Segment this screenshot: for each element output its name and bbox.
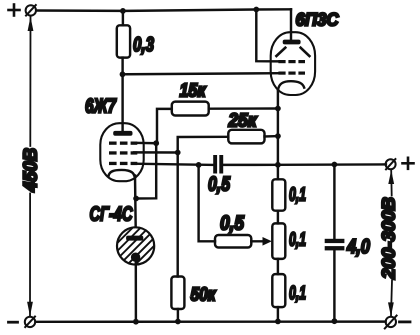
wire control grid 6Zh7 to C1 bbox=[134, 164, 213, 165]
node suppressor 6Zh7 bbox=[153, 140, 159, 146]
wire R1 bottom to 6Zh7 anode bbox=[121, 58, 123, 133]
wire C2 top lead bbox=[333, 165, 335, 239]
resistor 50k bbox=[171, 277, 184, 310]
svg-text:0,5: 0,5 bbox=[220, 213, 245, 235]
tube 6P3S envelope bbox=[271, 32, 315, 95]
beam plate left 6P3S bbox=[276, 48, 285, 56]
wire 0,1 middle to bottom bbox=[277, 259, 279, 274]
capacitor C1 0,5 plate left bbox=[213, 155, 217, 174]
dimension arrow up 200-300V bbox=[388, 170, 394, 184]
capacitor C2 4,0 plate top bbox=[325, 239, 345, 243]
node cathode suppressor join bbox=[133, 196, 139, 202]
terminal output plus bbox=[386, 159, 396, 169]
dimension line 200-300V lower bbox=[391, 281, 392, 316]
svg-text:50к: 50к bbox=[191, 285, 217, 306]
svg-text:25к: 25к bbox=[228, 110, 258, 131]
wire 15k left lead bbox=[157, 109, 172, 143]
node bottom rail SG bbox=[133, 319, 139, 325]
svg-text:4,0: 4,0 bbox=[346, 236, 370, 258]
node grid line to 0,5 resistor bbox=[196, 162, 202, 168]
tube SG-4S envelope hatched bbox=[117, 227, 154, 264]
node output rail C2 bbox=[332, 162, 338, 168]
wire C2 bottom lead bbox=[333, 250, 335, 321]
dimension arrow up 450V bbox=[28, 17, 34, 32]
wire cathode 6P3S down to output rail bbox=[277, 90, 279, 165]
svg-text:0,1: 0,1 bbox=[289, 230, 306, 251]
wire rail to 0,1 top bbox=[277, 165, 279, 180]
grid g3 6Zh7 dashes bbox=[109, 142, 137, 145]
capacitor C1 0,5 plate right bbox=[219, 155, 223, 174]
cathode 6Zh7 bbox=[109, 170, 135, 176]
node bottom rail divider bbox=[275, 319, 281, 325]
anode 6Zh7 bbox=[113, 131, 132, 136]
wire suppressor grid join cathode 6Zh7 bbox=[136, 143, 156, 198]
terminal output minus bbox=[385, 316, 397, 329]
wire SG-4S cathode to bottom rail bbox=[135, 261, 138, 322]
wire screen row to node bbox=[134, 151, 178, 154]
svg-text:200-300В: 200-300В bbox=[379, 197, 399, 280]
grid g2 6Zh7 dashes bbox=[109, 151, 137, 154]
wire 0,1 bottom to rail bbox=[277, 307, 279, 321]
grid g1 6Zh7 dashes bbox=[109, 162, 137, 165]
wire C1 to output node bbox=[222, 164, 278, 167]
wire output rail bbox=[278, 163, 386, 166]
terminal input minus bbox=[25, 317, 35, 328]
wire 15k right lead bbox=[209, 107, 278, 110]
wire bottom rail bbox=[36, 320, 386, 323]
resistor divider 0,1 bottom bbox=[272, 274, 285, 307]
anode SG-4S bbox=[126, 236, 143, 241]
anode 6P3S bbox=[283, 40, 301, 45]
wire suppressor row to node bbox=[134, 142, 156, 145]
node top rail to screen grid bbox=[253, 7, 259, 13]
resistor R1 0,3 bbox=[117, 25, 130, 57]
node bottom rail 50k bbox=[175, 319, 181, 325]
cathode 6P3S bbox=[278, 81, 304, 90]
resistor divider 0,1 middle bbox=[272, 223, 285, 259]
dimension arrow down 450V bbox=[27, 302, 33, 317]
wire 0,5 to wiper arrow bbox=[251, 240, 265, 242]
wire top rail +450V bbox=[36, 9, 291, 11]
wire R1 top lead bbox=[122, 11, 124, 25]
grid g1 6P3S dashes bbox=[278, 72, 305, 75]
terminal input plus bbox=[26, 5, 36, 16]
node output rail cathode bbox=[275, 162, 281, 168]
cathode SG-4S bbox=[131, 253, 140, 262]
grid g2 6P3S dashes bbox=[278, 60, 305, 63]
tube 6Zh7 envelope bbox=[100, 123, 143, 181]
wire 50k bottom lead bbox=[177, 309, 179, 322]
node bottom rail C2 bbox=[332, 318, 338, 324]
minus sign input bbox=[9, 321, 18, 324]
svg-text:6П3С: 6П3С bbox=[296, 10, 340, 30]
wire 6Zh7 anode to 6P3S control grid bbox=[123, 73, 282, 74]
svg-text:0,3: 0,3 bbox=[133, 34, 154, 56]
svg-text:0,1: 0,1 bbox=[289, 185, 306, 206]
wiper arrowhead bbox=[263, 237, 272, 246]
svg-text:450В: 450В bbox=[21, 148, 42, 193]
svg-text:0,1: 0,1 bbox=[289, 283, 306, 304]
dimension line 200-300V upper bbox=[390, 171, 393, 196]
resistor divider 0,1 top bbox=[272, 179, 285, 210]
node anode 6Zh7 bbox=[120, 71, 126, 77]
node cathode 15k bbox=[275, 106, 281, 112]
beam plate right 6P3S bbox=[301, 48, 310, 56]
svg-text:0,5: 0,5 bbox=[208, 174, 231, 196]
wire 0,5 resistor branch bbox=[199, 165, 215, 241]
capacitor C2 4,0 plate bottom bbox=[325, 246, 345, 250]
dimension line 450V upper bbox=[29, 17, 31, 146]
plus sign output bbox=[403, 158, 414, 169]
resistor 15k bbox=[172, 102, 209, 116]
wire 25k left lead bbox=[178, 137, 229, 153]
dimension arrow down 200-300V bbox=[388, 302, 394, 316]
node screen grid 6Zh7 bbox=[175, 150, 181, 156]
resistor 25k bbox=[228, 130, 264, 144]
node top rail to R1 bbox=[120, 8, 126, 14]
plus sign input bbox=[9, 5, 20, 16]
wire anode 6P3S from rail bbox=[290, 9, 292, 41]
svg-text:15к: 15к bbox=[180, 80, 207, 101]
wire 0,1 top to middle bbox=[277, 211, 279, 224]
svg-text:6Ж7: 6Ж7 bbox=[85, 96, 117, 118]
node cathode 25k bbox=[275, 133, 281, 139]
resistor R 0,5 bbox=[215, 235, 251, 248]
minus sign output bbox=[400, 320, 411, 323]
dimension line 450V lower bbox=[29, 194, 31, 316]
svg-text:СГ-4С: СГ-4С bbox=[90, 203, 133, 225]
wire cathode 6Zh7 down bbox=[134, 176, 137, 237]
wire screen node down to 50k bbox=[176, 153, 178, 277]
wire 25k right lead bbox=[265, 135, 278, 138]
wire screen grid 6P3S from rail bbox=[256, 10, 280, 62]
